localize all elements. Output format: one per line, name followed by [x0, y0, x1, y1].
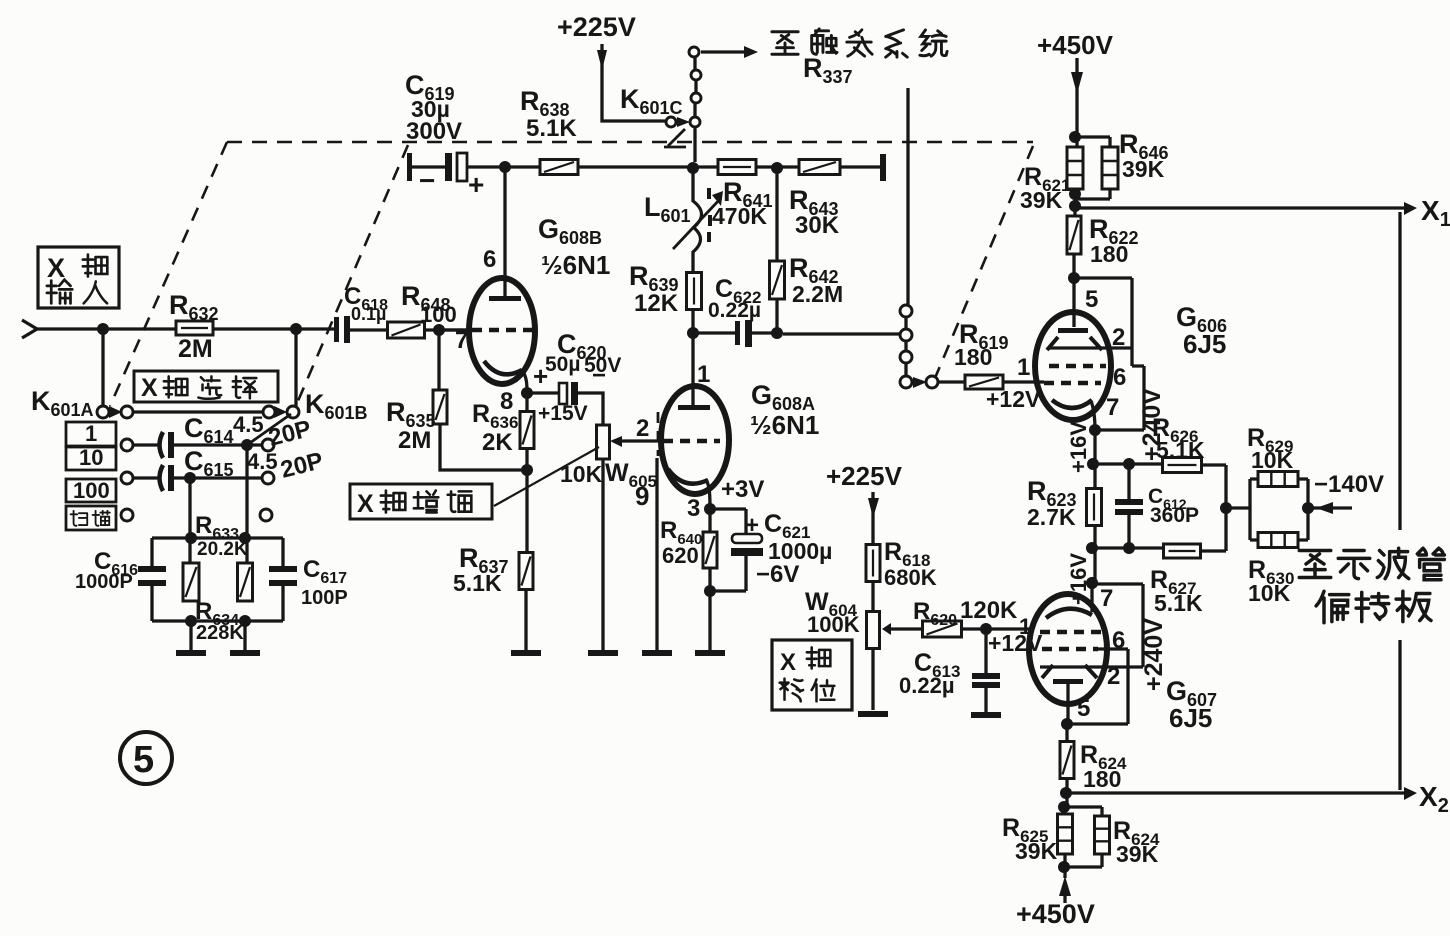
svg-text:X: X [357, 490, 374, 518]
svg-text:+450V: +450V [1016, 899, 1095, 929]
svg-text:39K: 39K [1122, 156, 1165, 182]
svg-text:100K: 100K [807, 612, 860, 637]
svg-text:−: − [592, 362, 606, 389]
svg-text:2M: 2M [398, 427, 431, 454]
svg-text:+3V: +3V [721, 476, 764, 503]
svg-text:360P: 360P [1150, 504, 1199, 527]
svg-text:7: 7 [455, 327, 468, 354]
svg-text:X: X [47, 253, 65, 283]
svg-text:2M: 2M [178, 335, 213, 363]
svg-text:10: 10 [79, 445, 103, 470]
svg-text:0.22µ: 0.22µ [708, 299, 761, 322]
svg-text:6: 6 [1113, 364, 1126, 391]
svg-text:7: 7 [1100, 585, 1113, 612]
svg-text:180: 180 [1083, 766, 1121, 792]
svg-text:0.22µ: 0.22µ [899, 673, 955, 698]
svg-text:+12V: +12V [986, 386, 1041, 412]
svg-text:10K: 10K [560, 461, 603, 487]
svg-text:680K: 680K [884, 565, 937, 590]
svg-text:8: 8 [500, 388, 513, 415]
svg-text:½6N1: ½6N1 [541, 250, 610, 280]
svg-text:180: 180 [954, 344, 992, 370]
svg-text:+: + [745, 512, 759, 539]
svg-text:5.1K: 5.1K [453, 570, 502, 596]
svg-text:100: 100 [420, 302, 457, 327]
svg-text:2: 2 [1112, 324, 1125, 351]
svg-text:470K: 470K [712, 203, 767, 229]
svg-text:+225V: +225V [826, 461, 903, 491]
svg-text:620: 620 [662, 543, 699, 568]
svg-text:1000P: 1000P [75, 571, 133, 593]
svg-text:−140V: −140V [1314, 471, 1384, 498]
svg-text:6J5: 6J5 [1183, 329, 1226, 359]
svg-text:4.5: 4.5 [247, 449, 278, 474]
svg-text:−6V: −6V [756, 561, 799, 588]
svg-text:X: X [141, 374, 158, 402]
svg-text:2: 2 [1107, 663, 1120, 690]
svg-text:−: − [419, 165, 435, 196]
svg-text:2.7K: 2.7K [1027, 504, 1076, 530]
svg-text:12K: 12K [634, 290, 679, 317]
svg-text:228K: 228K [196, 622, 244, 644]
svg-text:+12V: +12V [988, 630, 1043, 656]
svg-text:+450V: +450V [1037, 30, 1114, 60]
svg-text:39K: 39K [1116, 841, 1159, 867]
svg-text:5: 5 [1077, 695, 1090, 722]
svg-text:1: 1 [1017, 354, 1030, 381]
svg-text:100: 100 [73, 478, 110, 503]
svg-text:4.5: 4.5 [233, 412, 264, 437]
svg-text:+16V: +16V [1066, 421, 1091, 473]
svg-text:39K: 39K [1020, 187, 1063, 213]
svg-text:6J5: 6J5 [1169, 703, 1212, 733]
svg-text:10K: 10K [1248, 580, 1291, 606]
svg-text:100P: 100P [301, 587, 348, 609]
svg-text:5: 5 [133, 739, 154, 781]
svg-text:+240V: +240V [1140, 618, 1168, 691]
svg-text:+225V: +225V [557, 12, 636, 42]
svg-text:5: 5 [1085, 286, 1098, 313]
svg-text:3: 3 [687, 495, 700, 522]
svg-text:2.2M: 2.2M [792, 281, 843, 307]
svg-text:+16V: +16V [1066, 553, 1091, 605]
svg-text:1: 1 [697, 361, 710, 388]
svg-text:300V: 300V [406, 118, 462, 145]
svg-text:120K: 120K [960, 597, 1018, 624]
svg-text:X: X [780, 649, 796, 676]
svg-text:180: 180 [1090, 241, 1128, 267]
svg-text:30K: 30K [795, 212, 840, 239]
svg-text:20.2K: 20.2K [197, 539, 248, 560]
svg-text:7: 7 [1106, 394, 1119, 421]
svg-text:+: + [468, 169, 484, 200]
svg-text:5.1K: 5.1K [526, 115, 577, 142]
svg-text:½6N1: ½6N1 [750, 410, 819, 440]
svg-text:6: 6 [483, 246, 496, 273]
svg-text:2K: 2K [482, 429, 513, 456]
svg-text:+15V: +15V [538, 402, 588, 425]
svg-text:5.1K: 5.1K [1154, 590, 1203, 616]
svg-text:1: 1 [85, 421, 97, 446]
svg-text:+: + [533, 361, 548, 391]
svg-text:2: 2 [636, 415, 649, 442]
svg-text:6: 6 [1112, 627, 1125, 654]
svg-text:9: 9 [635, 481, 649, 511]
svg-text:10K: 10K [1251, 447, 1294, 473]
svg-text:0.1µ: 0.1µ [351, 304, 386, 324]
svg-text:39K: 39K [1015, 838, 1058, 864]
svg-text:50µ: 50µ [545, 353, 580, 376]
svg-text:5.1K: 5.1K [1156, 437, 1205, 463]
